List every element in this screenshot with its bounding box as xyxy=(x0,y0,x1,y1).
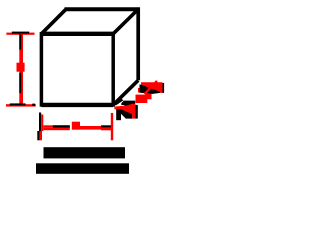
diag dimension arrow 2: black bottom wedge xyxy=(121,109,132,118)
diag dimension arrow 2: black right column xyxy=(135,105,138,119)
cube front bottom edge (thicker) xyxy=(41,103,113,107)
diag dimension arrow 1: black right border xyxy=(162,83,164,93)
left dimension: bottom cap black tip xyxy=(32,104,35,106)
bottom dimension: left cap red lower bar xyxy=(40,131,42,140)
bottom dimension: left cap black lower bar xyxy=(37,131,39,140)
left dimension: grip square G1 xyxy=(17,63,25,72)
left dimension: bottom cap black dash xyxy=(10,103,26,105)
text bar 2 xyxy=(36,163,129,174)
left dimension: bottom extension cap red line xyxy=(6,104,36,106)
bottom dimension: right extension cap red bar xyxy=(111,113,113,140)
left dimension: top extension cap red line xyxy=(6,33,34,35)
diag dimension arrow 2: black top block xyxy=(121,101,135,109)
diag dimension arrow 1: red left strip xyxy=(138,88,140,93)
bottom dimension: black dash segment right xyxy=(101,125,113,127)
left dimension: top cap black dash xyxy=(12,32,29,34)
left dimension: lower black dash segment xyxy=(19,73,21,93)
cube top-right diagonal edge xyxy=(113,9,138,34)
diag dimension arrow 1: black arrowhead xyxy=(140,84,161,94)
bottom dimension: left cap red bar xyxy=(41,115,43,132)
cube back right edge xyxy=(136,8,140,81)
left dimension: red dimension line (vertical stem) xyxy=(19,34,23,105)
cube top-left diagonal edge xyxy=(41,9,66,34)
text bar 1 xyxy=(44,147,126,158)
cube bottom-right diagonal edge xyxy=(113,80,138,105)
bottom dimension: bottom red line left segment xyxy=(43,128,70,131)
bottom dimension: left extension cap black bar xyxy=(39,113,41,132)
diag dimension arrow 1: red grip block xyxy=(140,82,163,93)
diag dimension arrow 2: black left column xyxy=(116,109,121,120)
bottom dimension: top red line left segment xyxy=(43,125,70,127)
diag dimension arrow 2: black leader band xyxy=(113,98,123,105)
diag dimension: grip G3 right step xyxy=(146,94,152,100)
bottom dimension: red line right lower segment xyxy=(101,128,113,131)
bottom dimension: black dash segment left xyxy=(53,125,70,127)
cube back top edge xyxy=(65,7,140,11)
bottom dimension: red line middle segment xyxy=(80,126,101,130)
diag dimension arrow 1: red leader slash xyxy=(145,81,158,94)
left dimension: upper black dash segment xyxy=(19,34,21,49)
diag dimension arrow 2: red leader band xyxy=(114,104,135,119)
bottom dimension: grip square G2 xyxy=(72,122,80,130)
cube front top edge (thicker) xyxy=(41,32,113,36)
cube front face xyxy=(41,34,113,105)
diag dimension: grip square G3 xyxy=(136,95,148,103)
